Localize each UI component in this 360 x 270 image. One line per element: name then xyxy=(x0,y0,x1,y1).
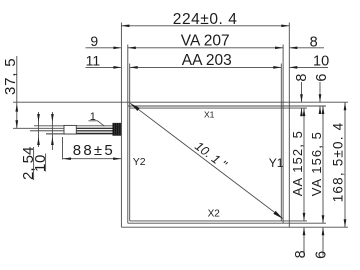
svg-text:8: 8 xyxy=(294,74,310,82)
svg-text:224±0. 4: 224±0. 4 xyxy=(173,11,238,28)
svg-text:Y1: Y1 xyxy=(269,156,284,170)
svg-text:X2: X2 xyxy=(208,208,221,219)
svg-text:168, 5±0. 4: 168, 5±0. 4 xyxy=(330,122,345,203)
svg-text:10: 10 xyxy=(32,154,49,172)
svg-text:6: 6 xyxy=(314,74,330,82)
svg-text:VA 156, 5: VA 156, 5 xyxy=(309,131,324,196)
svg-text:1: 1 xyxy=(90,111,96,123)
svg-text:88±5: 88±5 xyxy=(73,142,115,159)
svg-text:Y2: Y2 xyxy=(133,156,146,168)
svg-text:11: 11 xyxy=(86,52,101,68)
svg-text:10: 10 xyxy=(313,53,329,69)
svg-text:AA 203: AA 203 xyxy=(182,52,232,69)
svg-text:VA 207: VA 207 xyxy=(181,33,230,50)
svg-text:X1: X1 xyxy=(204,110,215,120)
svg-text:8: 8 xyxy=(293,250,309,258)
svg-text:37, 5: 37, 5 xyxy=(2,58,19,95)
svg-text:6: 6 xyxy=(313,251,329,259)
svg-text:9: 9 xyxy=(90,33,98,49)
svg-text:8: 8 xyxy=(310,35,318,51)
svg-text:AA 152, 5: AA 152, 5 xyxy=(290,130,305,196)
